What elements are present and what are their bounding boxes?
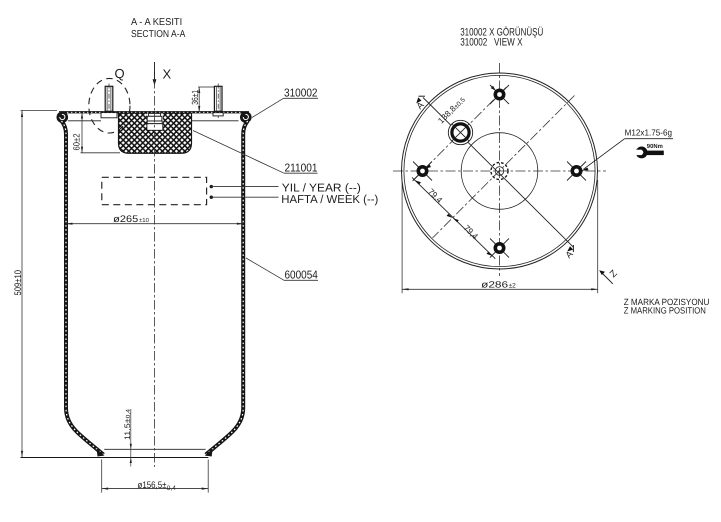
svg-text:211001: 211001 xyxy=(285,162,318,174)
svg-text:±10: ±10 xyxy=(139,217,150,224)
svg-text:M12x1.75-6g: M12x1.75-6g xyxy=(625,128,672,138)
svg-text:0,4: 0,4 xyxy=(167,485,176,492)
svg-text:36±1: 36±1 xyxy=(190,90,200,105)
svg-text:A - A KESITI: A - A KESITI xyxy=(131,17,182,28)
svg-text:90Nm: 90Nm xyxy=(647,143,663,150)
svg-text:HAFTA / WEEK (--): HAFTA / WEEK (--) xyxy=(281,194,378,206)
svg-text:310002: 310002 xyxy=(284,87,318,99)
svg-text:Z MARKING POSITION: Z MARKING POSITION xyxy=(624,306,706,316)
svg-text:ø265: ø265 xyxy=(113,214,138,225)
svg-text:Q: Q xyxy=(115,66,125,81)
svg-text:YIL / YEAR (--): YIL / YEAR (--) xyxy=(282,182,361,194)
svg-text:60±2: 60±2 xyxy=(72,134,82,151)
svg-text:X: X xyxy=(163,67,172,82)
svg-text:SECTION A-A: SECTION A-A xyxy=(131,29,186,40)
svg-text:ø286: ø286 xyxy=(481,279,508,289)
svg-text:±2: ±2 xyxy=(509,283,517,290)
svg-text:600054: 600054 xyxy=(285,270,319,282)
svg-text:ø156,5±: ø156,5± xyxy=(138,480,167,491)
svg-text:310002 VIEW X: 310002 VIEW X xyxy=(460,37,522,49)
svg-text:509±10: 509±10 xyxy=(13,270,24,296)
